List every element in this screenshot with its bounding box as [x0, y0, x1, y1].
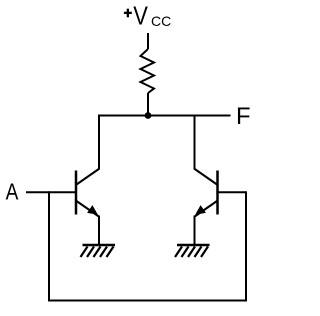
wire bottom feedback horizontal	[48, 300, 247, 302]
ground symbol right	[175, 245, 210, 257]
svg-text:V: V	[133, 2, 148, 31]
wire Q1 emitter down to ground	[98, 216, 100, 246]
ground symbol left	[81, 245, 116, 257]
wire resistor bottom to node F	[147, 93, 149, 116]
wire input A to Q1 base	[26, 191, 76, 193]
wire left feedback vertical (from A wire down)	[48, 191, 50, 300]
wire right feedback vertical (up to Q2 base wire)	[245, 191, 247, 300]
node F junction dot	[145, 112, 152, 119]
transistor Q2 (right NPN, mirrored)	[194, 169, 218, 218]
resistor R1 (pull-up to VCC)	[141, 49, 155, 93]
wire Q2 emitter down to ground	[194, 216, 196, 246]
wire Q1 collector vertical	[98, 115, 100, 170]
wire Q2 collector vertical	[194, 115, 196, 170]
transistor Q1 (left NPN)	[76, 169, 100, 218]
wire collector rail (Q1 collector to Q2 collector to output F)	[99, 115, 231, 117]
svg-text:CC: CC	[151, 13, 171, 29]
wire VCC lead to resistor top	[147, 33, 149, 49]
power net label +VCC	[124, 2, 171, 31]
svg-text:F: F	[236, 103, 251, 130]
svg-text:A: A	[6, 180, 20, 205]
wire Q2 base to right feedback wire	[218, 191, 247, 193]
